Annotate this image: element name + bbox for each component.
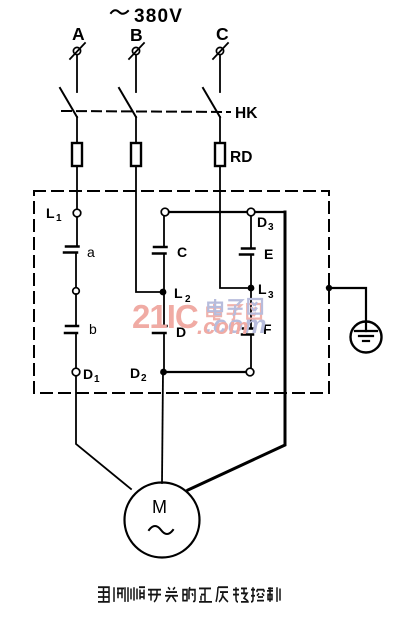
svg-text:D: D [83, 366, 93, 382]
watermark pink 电子网 [207, 304, 261, 320]
label ~380V [111, 6, 183, 27]
mid node (left column) [73, 288, 80, 295]
svg-text:L: L [46, 205, 55, 221]
wire to ground [329, 288, 366, 322]
svg-text:.com: .com [197, 314, 248, 339]
node bottom of F column [246, 368, 254, 376]
svg-text:21IC: 21IC [132, 298, 198, 335]
wire contact E to L3 [250, 255, 252, 285]
wire L3 to contact F [250, 288, 252, 328]
node D3 [247, 208, 255, 216]
svg-text:a: a [87, 244, 95, 260]
wire mid node to contact b [75, 294, 77, 326]
wire L1 to contact a [76, 217, 78, 246]
L3 label [258, 281, 274, 301]
svg-text:D: D [257, 214, 267, 230]
watermark blue 电子网 [208, 299, 262, 315]
motor M1 [125, 483, 200, 558]
wire D1 to motor [76, 376, 131, 489]
wire B switch to fuse [135, 117, 137, 143]
wire D3 to contact E [250, 216, 252, 248]
ground (earth symbol in circle) [351, 322, 382, 353]
ground junction node [326, 285, 332, 291]
switch HK blade B [119, 88, 136, 117]
D3 label [257, 214, 274, 233]
terminal A [70, 43, 85, 59]
enclosure (reversing switch, dashed box) [34, 191, 329, 393]
wire B fuse into box [136, 166, 160, 292]
wire right heavy conductor to motor [188, 212, 285, 490]
contact D [153, 326, 167, 333]
contact F [242, 329, 254, 335]
mechanical link (dashed) [62, 111, 230, 112]
wire D2 to motor [162, 372, 163, 483]
svg-text:1: 1 [56, 213, 62, 224]
svg-text:A: A [72, 24, 85, 44]
node D1 [72, 368, 80, 376]
wire contact F to bottom node [250, 335, 252, 369]
svg-text:C: C [216, 24, 229, 44]
fuse RD phase B [131, 143, 141, 166]
node D2 (junction) [160, 369, 167, 376]
svg-text:HK: HK [235, 105, 258, 122]
svg-text:RD: RD [230, 149, 252, 166]
svg-text:B: B [130, 25, 143, 45]
contact b [65, 326, 78, 333]
wire contact a to mid node [75, 253, 77, 288]
node top of middle column [161, 208, 169, 216]
contact C [153, 247, 167, 254]
svg-text:3: 3 [268, 222, 274, 233]
wire contact D to D2 [163, 333, 165, 372]
node L1 [73, 209, 81, 217]
fuse RD phase C [215, 143, 225, 166]
wire bottom horizontal D2 to F column [164, 371, 245, 373]
switch HK blade A [60, 88, 77, 117]
wire L2 to contact D [163, 292, 165, 326]
wire contact b to D1 [75, 333, 77, 368]
svg-text:b: b [89, 321, 97, 337]
switch HK blade C [203, 88, 220, 117]
terminal B [129, 43, 144, 59]
svg-text:C: C [177, 244, 187, 260]
L2 label [174, 285, 191, 305]
svg-text:380V: 380V [134, 6, 183, 27]
wire C terminal to switch [219, 55, 221, 92]
node L3 (junction) [248, 285, 255, 292]
caption 用倒顺开关的正反转控制 [98, 587, 280, 602]
wire top horizontal (to D3 and right) [169, 211, 285, 213]
wire middle column top [163, 216, 165, 247]
wire C fuse into box [220, 166, 247, 288]
wire B terminal to switch [135, 55, 137, 92]
contact E [240, 249, 255, 255]
svg-text:1: 1 [94, 374, 100, 385]
terminal C [213, 43, 228, 59]
fuse RD phase A [72, 143, 82, 166]
svg-text:3: 3 [268, 290, 274, 301]
watermark 21IC.com 电子网 [132, 298, 267, 339]
L1 label [46, 205, 62, 224]
D2 label [130, 365, 147, 384]
wire A terminal to switch [76, 55, 78, 92]
wire contact C to L2 [163, 254, 165, 290]
wire A fuse to L1 [76, 166, 78, 209]
svg-text:D: D [130, 365, 140, 381]
contact a [64, 247, 79, 253]
wire C switch to fuse [219, 117, 221, 143]
node L2 (junction) [160, 289, 167, 296]
svg-text:2: 2 [141, 373, 147, 384]
wire A switch to fuse [76, 117, 78, 143]
svg-text:M: M [152, 497, 167, 517]
D1 label [83, 366, 100, 385]
svg-text:L: L [258, 281, 267, 297]
svg-text:E: E [264, 246, 273, 262]
